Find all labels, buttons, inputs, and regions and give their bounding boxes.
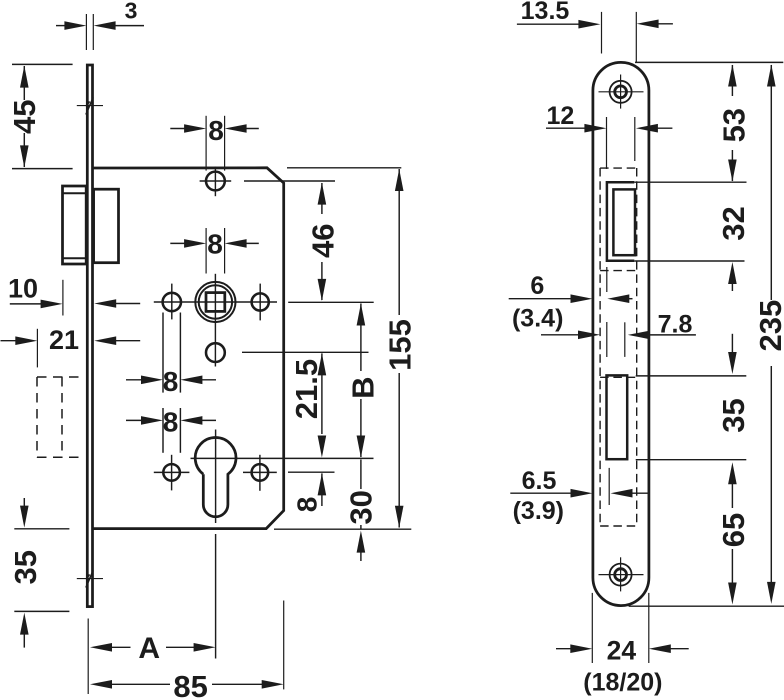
svg-text:85: 85 (173, 669, 207, 700)
svg-text:A: A (138, 632, 160, 665)
svg-text:3: 3 (125, 0, 138, 23)
svg-text:53: 53 (717, 108, 752, 142)
svg-text:6: 6 (530, 272, 544, 300)
svg-text:13.5: 13.5 (521, 0, 570, 25)
svg-text:21.5: 21.5 (289, 359, 324, 419)
svg-text:235: 235 (753, 300, 784, 352)
svg-text:12: 12 (546, 102, 574, 130)
svg-text:(3.9): (3.9) (513, 497, 564, 525)
svg-text:35: 35 (716, 398, 751, 432)
svg-text:32: 32 (716, 206, 751, 240)
svg-text:21: 21 (49, 325, 79, 355)
svg-text:8: 8 (163, 406, 179, 437)
svg-text:30: 30 (343, 490, 378, 524)
svg-text:155: 155 (382, 319, 417, 371)
svg-text:(18/20): (18/20) (583, 669, 662, 697)
svg-text:6.5: 6.5 (522, 467, 557, 495)
svg-text:35: 35 (8, 550, 43, 584)
svg-text:65: 65 (716, 513, 751, 547)
svg-text:24: 24 (607, 636, 637, 666)
svg-text:B: B (346, 377, 381, 399)
svg-text:10: 10 (8, 273, 38, 303)
svg-text:8: 8 (292, 497, 323, 513)
svg-text:8: 8 (207, 229, 223, 260)
svg-text:45: 45 (7, 100, 42, 134)
svg-text:8: 8 (208, 115, 224, 146)
svg-text:8: 8 (163, 366, 179, 397)
svg-text:(3.4): (3.4) (512, 305, 563, 333)
svg-text:46: 46 (306, 224, 341, 258)
